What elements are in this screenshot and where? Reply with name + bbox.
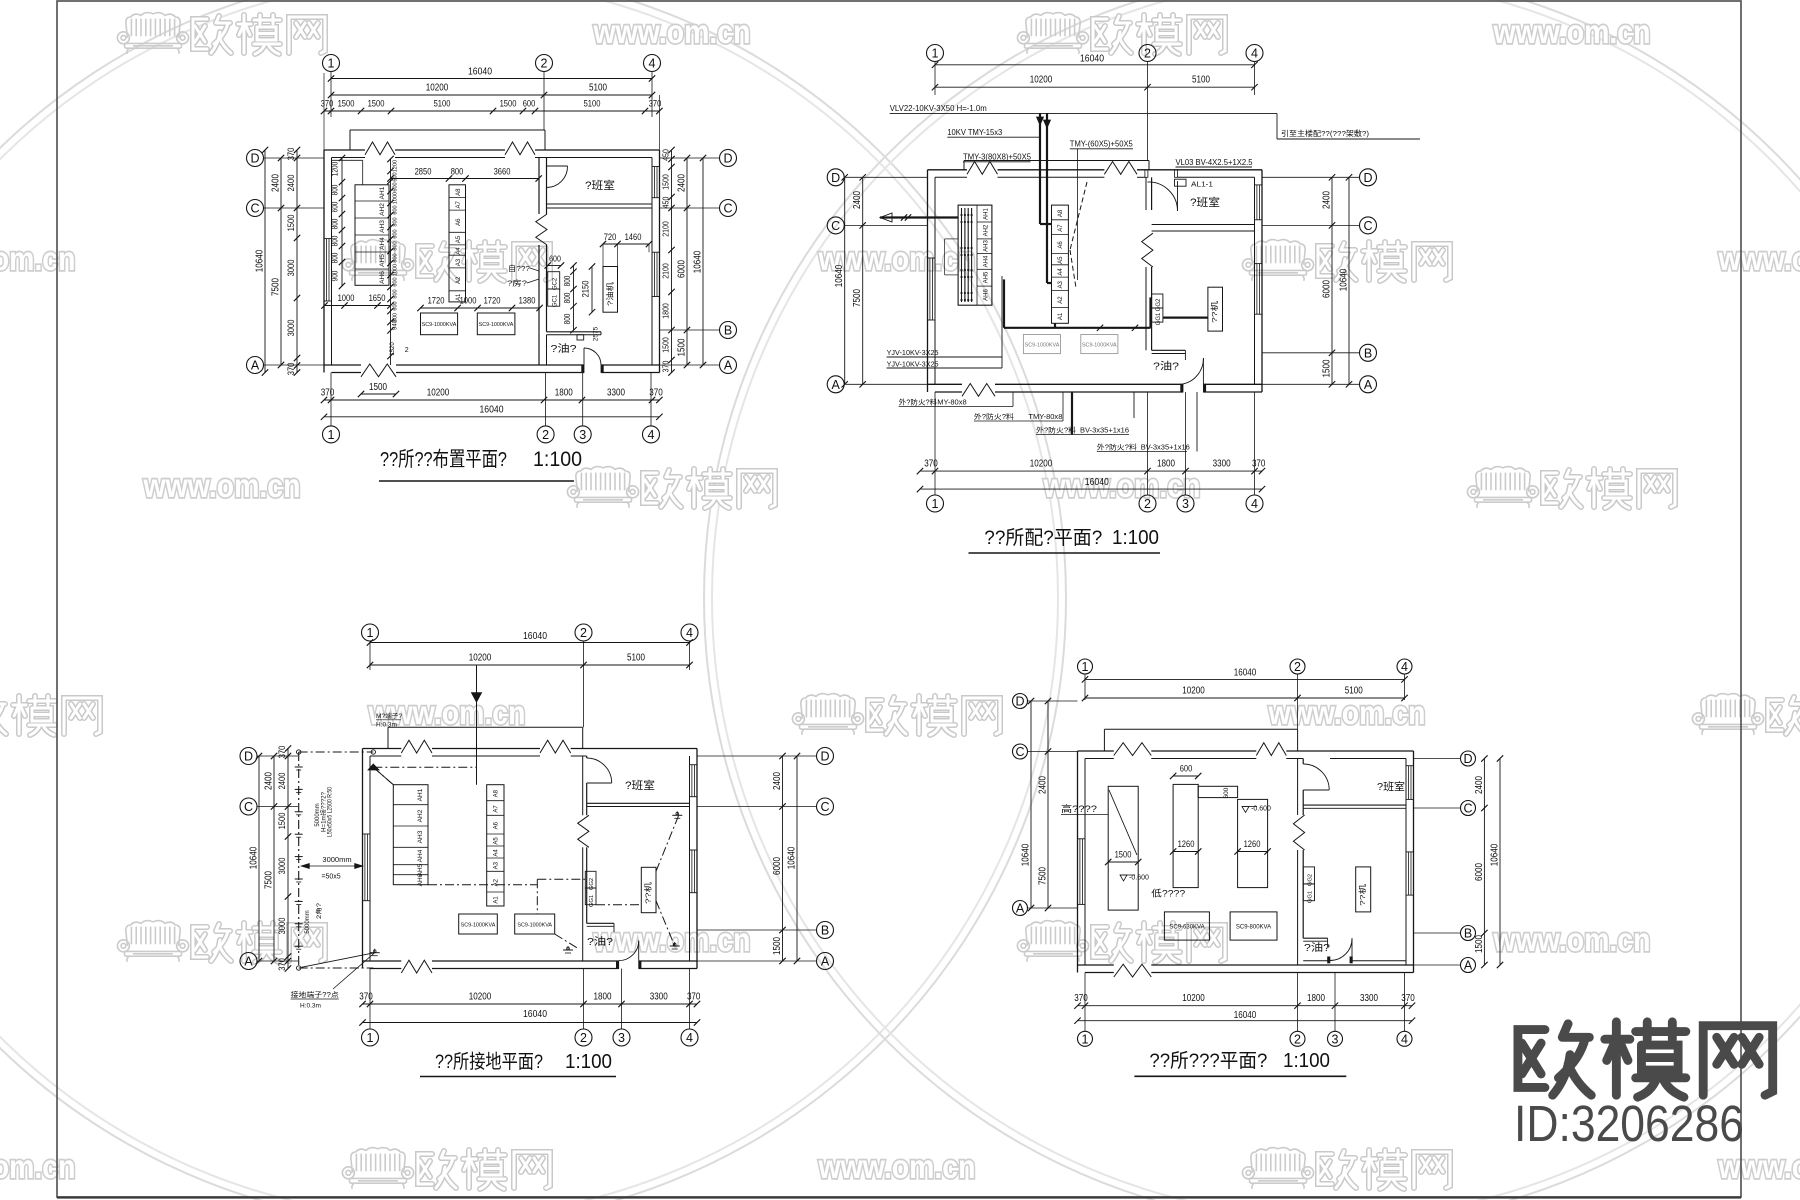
svg-text:600: 600 (523, 99, 536, 109)
svg-text:800: 800 (563, 275, 572, 286)
svg-text:GG1: GG1 (1156, 312, 1162, 325)
svg-text:?班室: ?班室 (1190, 195, 1220, 209)
svg-text:D: D (250, 152, 259, 166)
svg-text:AH6: AH6 (379, 271, 386, 284)
svg-text:A2: A2 (456, 276, 462, 284)
svg-text:1650: 1650 (369, 293, 386, 303)
svg-text:16040: 16040 (1085, 477, 1109, 488)
svg-text:BV-3x35+1x16: BV-3x35+1x16 (1141, 444, 1190, 451)
svg-text:10200: 10200 (426, 83, 449, 94)
svg-text:1000: 1000 (393, 192, 399, 204)
svg-text:2400: 2400 (852, 191, 863, 209)
svg-text:7500: 7500 (264, 871, 275, 889)
svg-text:2100: 2100 (661, 263, 671, 279)
svg-text:A7: A7 (1058, 224, 1064, 232)
svg-text:??所??布置平面?: ??所??布置平面? (380, 448, 507, 471)
svg-text:B: B (821, 924, 829, 938)
svg-text:16040: 16040 (1234, 668, 1257, 679)
svg-text:1380: 1380 (519, 296, 536, 306)
svg-text:AH3: AH3 (417, 830, 424, 843)
svg-text:10640: 10640 (1490, 843, 1501, 866)
svg-text:5100: 5100 (1192, 75, 1210, 86)
svg-text:370: 370 (277, 958, 287, 971)
svg-text:A5: A5 (1058, 256, 1064, 264)
svg-text:2: 2 (1144, 47, 1151, 61)
svg-text:600: 600 (1223, 787, 1230, 798)
svg-text:2850: 2850 (415, 167, 432, 177)
svg-text:3000: 3000 (277, 918, 287, 935)
svg-text:AH3: AH3 (379, 220, 386, 233)
svg-text:16040: 16040 (523, 631, 547, 642)
svg-text:1460: 1460 (625, 232, 642, 242)
svg-text:10640: 10640 (834, 264, 845, 287)
svg-text:1: 1 (328, 428, 335, 442)
svg-text:1500: 1500 (677, 338, 688, 356)
svg-text:AH4: AH4 (417, 849, 424, 862)
svg-text:1720: 1720 (428, 296, 445, 306)
svg-text:7500: 7500 (852, 289, 863, 307)
svg-text:AH4: AH4 (984, 255, 990, 267)
svg-text:YJV-10KV-3X25: YJV-10KV-3X25 (887, 350, 939, 357)
svg-text:??所???平面?: ??所???平面? (1149, 1050, 1267, 1072)
svg-text:6000: 6000 (677, 260, 688, 278)
svg-text:600: 600 (393, 229, 399, 238)
svg-text:2400: 2400 (772, 772, 783, 790)
svg-text:1: 1 (932, 497, 939, 511)
svg-text:2: 2 (541, 57, 548, 71)
svg-text:2400: 2400 (677, 174, 688, 192)
svg-text:1500: 1500 (368, 99, 385, 109)
svg-text:A4: A4 (1058, 268, 1064, 276)
svg-text:1500: 1500 (772, 937, 783, 955)
svg-text:A6: A6 (494, 821, 500, 829)
svg-text:800: 800 (393, 217, 399, 226)
svg-text:A2: A2 (1058, 296, 1064, 304)
svg-text:6000: 6000 (1322, 280, 1333, 298)
svg-text:AH4: AH4 (379, 237, 386, 250)
svg-text:A: A (1364, 378, 1373, 392)
svg-text:4: 4 (1401, 1032, 1408, 1046)
svg-text:?房?: ?房? (507, 278, 527, 288)
svg-text:2400: 2400 (286, 175, 296, 192)
svg-text:1500: 1500 (500, 99, 517, 109)
svg-text:?油?: ?油? (1153, 360, 1180, 373)
svg-text:SC9-800KVA: SC9-800KVA (1236, 925, 1271, 931)
svg-text:低????: 低???? (1151, 888, 1185, 899)
svg-text:外?防火?料MY-80x8: 外?防火?料MY-80x8 (899, 398, 967, 407)
svg-text:A5: A5 (456, 235, 462, 243)
svg-text:H=1m接???2?: H=1m接???2? (320, 791, 328, 832)
svg-text:A: A (832, 378, 841, 392)
svg-text:2: 2 (1294, 660, 1301, 674)
svg-text:10640: 10640 (693, 250, 704, 273)
svg-text:=50x5: =50x5 (321, 874, 340, 881)
svg-text:?班室: ?班室 (625, 778, 655, 792)
svg-text:1500: 1500 (277, 813, 287, 830)
D3 grounding loop (298, 752, 300, 968)
svg-text:5100: 5100 (584, 99, 601, 109)
svg-text:??所接地平面?: ??所接地平面? (435, 1051, 543, 1073)
svg-text:3300: 3300 (607, 388, 625, 399)
svg-text:16040: 16040 (468, 67, 492, 78)
svg-text:SC9-1000KVA: SC9-1000KVA (1025, 343, 1060, 349)
D1 diesel generator (603, 267, 618, 313)
svg-text:600: 600 (549, 254, 561, 264)
svg-text:A: A (821, 955, 830, 969)
svg-text:?油?: ?油? (1304, 941, 1331, 954)
svg-text:高????: 高???? (1061, 803, 1097, 814)
svg-text:3: 3 (579, 428, 586, 442)
svg-text:600: 600 (393, 205, 399, 214)
svg-text:D: D (1463, 752, 1472, 766)
svg-text:800: 800 (331, 184, 340, 195)
svg-text:600: 600 (393, 172, 399, 181)
svg-text:B: B (1364, 346, 1372, 360)
svg-text:900: 900 (331, 270, 340, 281)
svg-text:1800: 1800 (594, 992, 612, 1003)
svg-text:接地端子??点: 接地端子??点 (291, 990, 339, 999)
svg-text:A: A (244, 955, 253, 969)
svg-text:4: 4 (686, 626, 693, 640)
svg-text:4: 4 (649, 57, 656, 71)
svg-text:10640: 10640 (1339, 268, 1350, 291)
svg-text:??所配?平面?: ??所配?平面? (984, 527, 1102, 549)
svg-text:-0.600: -0.600 (1129, 875, 1149, 882)
Drawing 2: distribution plan (927, 45, 944, 62)
svg-text:1500: 1500 (1322, 359, 1333, 377)
svg-text:1000: 1000 (338, 293, 355, 303)
svg-text:外?防火?料: 外?防火?料 (974, 412, 1014, 421)
svg-text:外?防火?料: 外?防火?料 (1036, 425, 1076, 434)
svg-text:2400: 2400 (277, 773, 287, 790)
svg-text:A: A (724, 359, 733, 373)
svg-text:A8: A8 (1058, 209, 1064, 217)
svg-text:370: 370 (321, 99, 334, 109)
svg-text:1500: 1500 (661, 337, 671, 353)
svg-text:3000: 3000 (277, 858, 287, 875)
svg-text:2100: 2100 (661, 221, 671, 237)
svg-text:D: D (820, 750, 829, 764)
svg-text:10KV TMY-15x3: 10KV TMY-15x3 (947, 128, 1002, 137)
svg-text:GG2: GG2 (1156, 298, 1162, 311)
svg-text:1800: 1800 (661, 303, 671, 319)
svg-text:自???: 自??? (508, 263, 530, 273)
svg-text:1: 1 (367, 626, 374, 640)
svg-text:AH5: AH5 (984, 271, 990, 283)
svg-text:16040: 16040 (523, 1009, 547, 1020)
svg-text:10200: 10200 (469, 992, 492, 1003)
svg-text:1:100: 1:100 (565, 1051, 612, 1073)
svg-text:1260: 1260 (1244, 839, 1261, 849)
svg-text:5100: 5100 (1345, 686, 1363, 697)
svg-text:3: 3 (618, 1031, 625, 1045)
svg-text:1260: 1260 (1178, 839, 1195, 849)
svg-text:SC9-1000KVA: SC9-1000KVA (461, 923, 496, 929)
svg-text:10200: 10200 (1182, 993, 1205, 1004)
svg-text:2575: 2575 (593, 326, 600, 341)
svg-text:TMY-80x8: TMY-80x8 (1028, 414, 1062, 421)
svg-text:1500: 1500 (286, 215, 296, 232)
svg-text:D: D (1363, 171, 1372, 185)
svg-text:A8: A8 (494, 789, 500, 797)
svg-text:GG1: GG1 (1307, 891, 1313, 903)
svg-text:1500: 1500 (1115, 850, 1132, 860)
svg-text:C: C (723, 202, 732, 216)
svg-text:600: 600 (1180, 764, 1193, 774)
svg-text:AH2: AH2 (379, 203, 386, 216)
svg-text:600: 600 (393, 277, 399, 286)
svg-text:L50x50x5 L2500 R:50: L50x50x5 L2500 R:50 (328, 786, 334, 837)
svg-text:SC9-630KVA: SC9-630KVA (1169, 925, 1204, 931)
svg-text:A1: A1 (1058, 312, 1064, 320)
svg-text:A7: A7 (456, 200, 462, 208)
svg-text:2400: 2400 (1038, 776, 1049, 794)
svg-text:?油?: ?油? (587, 935, 614, 948)
D2 transformers (1023, 335, 1060, 354)
svg-text:2: 2 (1144, 497, 1151, 511)
svg-text:370: 370 (924, 459, 938, 470)
svg-text:2: 2 (542, 428, 549, 442)
svg-text:370: 370 (277, 746, 287, 759)
svg-text:1000: 1000 (460, 296, 477, 306)
Drawing 3: grounding plan (362, 624, 379, 641)
svg-text:D: D (244, 750, 253, 764)
svg-text:600: 600 (393, 182, 399, 191)
svg-text:SC9-1000KVA: SC9-1000KVA (422, 322, 457, 328)
svg-text:16040: 16040 (480, 405, 504, 416)
svg-text:GC1: GC1 (553, 294, 559, 307)
watermark tiles (117, 13, 325, 54)
svg-text:A4: A4 (456, 247, 462, 255)
svg-text:M?端子?: M?端子? (376, 711, 402, 720)
svg-text:5000mm: 5000mm (305, 910, 311, 933)
svg-text:370: 370 (286, 363, 296, 376)
svg-text:AH1: AH1 (417, 788, 424, 801)
svg-text:YJV-10KV-3X25: YJV-10KV-3X25 (887, 361, 939, 368)
svg-text:B: B (724, 324, 732, 338)
svg-text:C: C (820, 800, 829, 814)
svg-text:10640: 10640 (255, 249, 266, 272)
svg-text:1: 1 (328, 57, 335, 71)
svg-text:3660: 3660 (494, 167, 511, 177)
svg-text:6000: 6000 (1474, 863, 1485, 881)
svg-text:C: C (1363, 219, 1372, 233)
svg-text:940: 940 (393, 319, 399, 330)
D3 transformers (459, 914, 498, 934)
svg-text:370: 370 (1074, 993, 1088, 1004)
svg-text:C: C (250, 202, 259, 216)
svg-text:4: 4 (648, 428, 655, 442)
svg-text:10200: 10200 (469, 653, 492, 664)
svg-text:??机: ??机 (1209, 300, 1219, 323)
svg-text:1: 1 (1082, 1032, 1089, 1046)
svg-text:?班室: ?班室 (585, 178, 615, 192)
D2 AH busbar panel (958, 205, 992, 305)
svg-text:2: 2 (405, 347, 409, 354)
omw logo bottom right (1518, 1022, 1773, 1097)
svg-text:AH1: AH1 (984, 208, 990, 220)
svg-text:AH3: AH3 (984, 240, 990, 252)
svg-text:16040: 16040 (1234, 1010, 1257, 1021)
svg-text:10200: 10200 (1030, 75, 1053, 86)
svg-text:450: 450 (661, 196, 671, 208)
svg-text:800: 800 (331, 252, 340, 263)
svg-text:2400: 2400 (1474, 776, 1485, 794)
svg-text:2: 2 (580, 1031, 587, 1045)
svg-text:3300: 3300 (1213, 459, 1231, 470)
svg-text:C: C (1463, 802, 1472, 816)
svg-text:2400: 2400 (271, 174, 282, 192)
svg-text:1720: 1720 (484, 296, 501, 306)
svg-text:2400: 2400 (1322, 191, 1333, 209)
svg-text:370: 370 (661, 360, 671, 372)
D1 transformers SC9-1000KVA (421, 313, 458, 335)
svg-text:外?防火?料: 外?防火?料 (1097, 442, 1137, 451)
svg-text:800: 800 (563, 292, 572, 303)
svg-text:3: 3 (1332, 1032, 1339, 1046)
svg-text:C: C (244, 800, 253, 814)
svg-text:VL03 BV-4X2.5+1X2.5: VL03 BV-4X2.5+1X2.5 (1176, 158, 1254, 167)
D4 transformers (1164, 912, 1209, 940)
svg-text:D: D (831, 171, 840, 185)
svg-text:800: 800 (393, 253, 399, 262)
svg-text:3: 3 (1182, 497, 1189, 511)
svg-text:800: 800 (563, 313, 572, 324)
svg-text:AH6: AH6 (417, 873, 424, 886)
svg-text:720: 720 (604, 232, 617, 242)
svg-text:370: 370 (1252, 459, 1266, 470)
svg-text:800: 800 (393, 241, 399, 250)
svg-text:SC9-1000KVA: SC9-1000KVA (479, 322, 514, 328)
svg-text:4: 4 (1251, 47, 1258, 61)
svg-text:AH6: AH6 (984, 289, 990, 301)
svg-text:370: 370 (687, 992, 701, 1003)
svg-text:7500: 7500 (271, 278, 282, 296)
svg-text:4: 4 (1401, 660, 1408, 674)
svg-text:C: C (831, 219, 840, 233)
svg-text:D: D (723, 152, 732, 166)
svg-text:引至主楼配??(???架敷?): 引至主楼配??(???架敷?) (1281, 128, 1370, 138)
svg-text:10640: 10640 (787, 846, 798, 869)
D2 panel column A1-A8 (1052, 205, 1069, 323)
svg-text:D: D (1015, 695, 1024, 709)
D1 axis grid (323, 55, 340, 72)
svg-text:1200: 1200 (393, 160, 399, 172)
svg-text:5100: 5100 (627, 653, 645, 664)
svg-text:VLV22-10KV-3X50 H=-1.0m: VLV22-10KV-3X50 H=-1.0m (890, 104, 987, 113)
svg-text:A7: A7 (494, 805, 500, 813)
svg-text:A3: A3 (1058, 281, 1064, 289)
svg-text:3300: 3300 (1360, 993, 1378, 1004)
svg-text:A4: A4 (494, 849, 500, 857)
svg-text:10200: 10200 (1030, 459, 1053, 470)
svg-text:10200: 10200 (427, 388, 450, 399)
svg-text:AH2: AH2 (984, 224, 990, 236)
svg-text:3000: 3000 (286, 320, 296, 337)
svg-text:A6: A6 (456, 218, 462, 226)
svg-text:GC2: GC2 (553, 277, 559, 290)
svg-text:SC9-1000KVA: SC9-1000KVA (1082, 343, 1117, 349)
svg-text:A5: A5 (494, 837, 500, 845)
svg-text:A: A (1016, 902, 1025, 916)
svg-text:B: B (1464, 927, 1472, 941)
svg-text:?油?: ?油? (551, 342, 578, 355)
svg-text:5000mm: 5000mm (315, 803, 321, 826)
svg-text:600: 600 (331, 201, 340, 212)
svg-text:1800: 1800 (1157, 459, 1175, 470)
svg-text:7500: 7500 (1038, 867, 1049, 885)
svg-text:450: 450 (661, 149, 671, 161)
svg-text:1: 1 (1082, 660, 1089, 674)
svg-text:??机: ??机 (1357, 883, 1367, 906)
svg-text:A3: A3 (456, 258, 462, 266)
svg-text:800: 800 (393, 289, 399, 298)
svg-text:1:100: 1:100 (533, 448, 582, 471)
svg-text:16040: 16040 (1080, 54, 1104, 65)
svg-text:1500: 1500 (369, 382, 387, 393)
svg-text:BV-3x35+1x16: BV-3x35+1x16 (1080, 427, 1129, 434)
svg-text:1000: 1000 (393, 264, 399, 276)
svg-text:1800: 1800 (1307, 993, 1325, 1004)
svg-text:10200: 10200 (1182, 686, 1205, 697)
svg-text:800: 800 (331, 235, 340, 246)
svg-text:1800: 1800 (555, 388, 573, 399)
svg-text:5100: 5100 (589, 83, 607, 94)
svg-text:3300: 3300 (650, 992, 668, 1003)
svg-text:370: 370 (1401, 993, 1415, 1004)
D3 panel AH column (393, 785, 428, 885)
svg-text:??机: ??机 (643, 881, 653, 904)
svg-text:?班室: ?班室 (1377, 780, 1405, 793)
svg-text:10640: 10640 (1021, 843, 1032, 866)
svg-text:A6: A6 (1058, 241, 1064, 249)
svg-text:GG1: GG1 (589, 895, 595, 907)
svg-text:1200: 1200 (331, 161, 340, 176)
svg-text:C: C (1015, 745, 1024, 759)
svg-text:A1: A1 (494, 896, 500, 904)
svg-text:1: 1 (932, 47, 939, 61)
svg-text:1500: 1500 (1474, 935, 1485, 953)
svg-text:AH1: AH1 (379, 186, 386, 199)
svg-text:2: 2 (1294, 1032, 1301, 1046)
svg-text:10640: 10640 (249, 846, 260, 869)
svg-text:1500: 1500 (661, 174, 671, 190)
svg-text:SC9-1000KVA: SC9-1000KVA (517, 923, 552, 929)
svg-text:AL1-1: AL1-1 (1191, 180, 1213, 189)
svg-text:800: 800 (331, 218, 340, 229)
svg-text:5100: 5100 (434, 99, 451, 109)
svg-text:1:100: 1:100 (1283, 1050, 1330, 1072)
svg-text:?油机: ?油机 (605, 281, 615, 306)
D1 panel column A1-A8 (449, 185, 466, 302)
svg-text:370: 370 (286, 148, 296, 161)
svg-text:3000mm: 3000mm (322, 855, 351, 864)
svg-text:AH5: AH5 (379, 254, 386, 267)
Drawing 4: trench plan (1078, 659, 1093, 674)
svg-text:1:100: 1:100 (1112, 527, 1159, 549)
svg-text:3000: 3000 (286, 260, 296, 277)
D4 cable trenches (1108, 786, 1138, 910)
svg-text:1: 1 (367, 1031, 374, 1045)
svg-text:2400: 2400 (264, 772, 275, 790)
svg-text:TMY-(60X5)+50X5: TMY-(60X5)+50X5 (1070, 140, 1134, 149)
svg-text:ID:3206286: ID:3206286 (1514, 1095, 1744, 1152)
svg-text:A3: A3 (494, 861, 500, 869)
D1 switchgear panel AH1-AH6 (355, 185, 389, 285)
svg-text:A: A (1464, 959, 1473, 973)
svg-text:A: A (251, 359, 260, 373)
svg-text:A8: A8 (456, 188, 462, 196)
